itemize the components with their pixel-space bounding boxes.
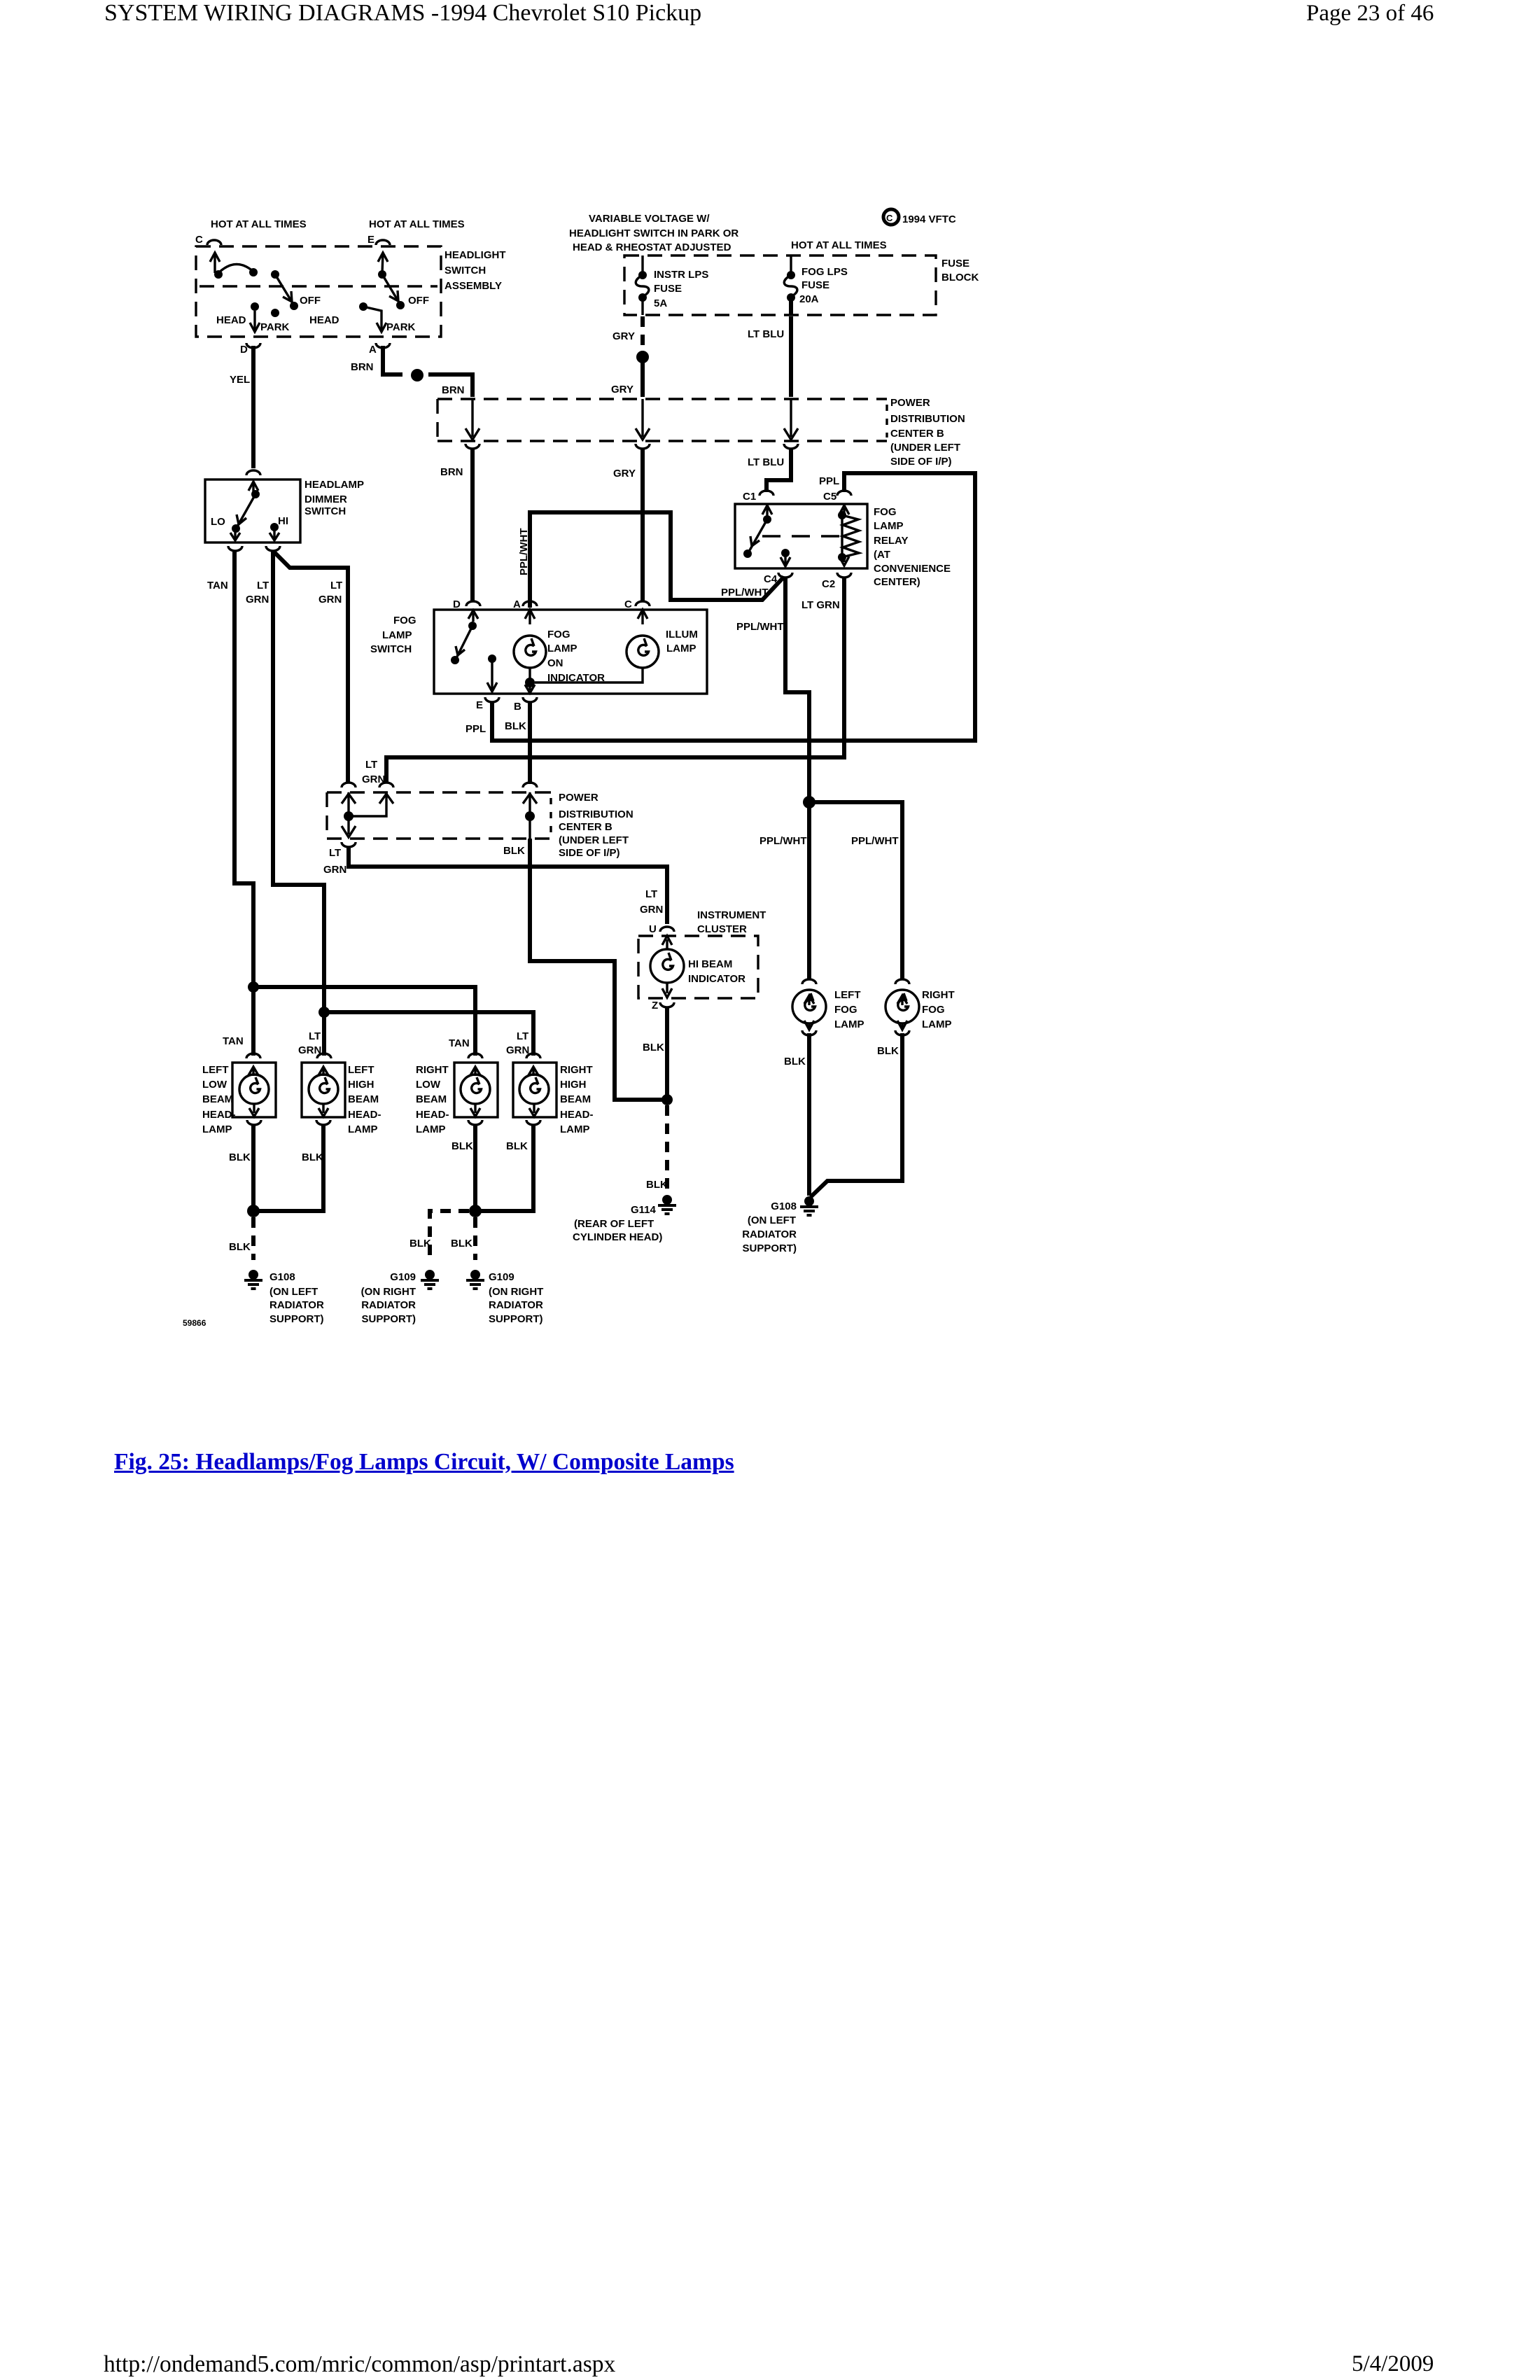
label LT GRN (at U) — [640, 888, 663, 916]
label LT GRN (upper, left) — [246, 580, 269, 605]
svg-text:PPL/WHT: PPL/WHT — [851, 835, 899, 847]
svg-text:LT: LT — [517, 1030, 528, 1042]
label G109 (ON RIGHT RADIATOR SUPPORT) right — [489, 1271, 543, 1325]
connector above left low beam headlamp — [246, 1053, 260, 1058]
svg-text:CYLINDER HEAD): CYLINDER HEAD) — [573, 1231, 662, 1243]
svg-text:RADIATOR: RADIATOR — [742, 1228, 797, 1240]
svg-text:BLK: BLK — [229, 1151, 251, 1163]
label FOG LAMP SWITCH — [370, 615, 416, 655]
svg-text:CLUSTER: CLUSTER — [697, 923, 747, 935]
svg-text:BLK: BLK — [784, 1056, 806, 1067]
svg-text:RELAY: RELAY — [874, 535, 908, 547]
relay dashed actuation line — [762, 535, 842, 537]
svg-text:HI: HI — [278, 515, 288, 527]
svg-text:PPL: PPL — [819, 475, 839, 487]
svg-text:HEADLIGHT SWITCH IN PARK OR: HEADLIGHT SWITCH IN PARK OR — [569, 227, 738, 239]
header left — [104, 0, 701, 27]
svg-text:DISTRIBUTION: DISTRIBUTION — [559, 808, 633, 820]
dimmer switch internals — [230, 482, 279, 540]
svg-text:C: C — [886, 213, 893, 223]
wire PPL from E to relay C5 (right loop) — [492, 473, 975, 741]
svg-text:BLK: BLK — [229, 1241, 251, 1253]
junction dot PPL/WHT fog lamps — [803, 796, 815, 808]
svg-text:FUSE: FUSE — [941, 258, 969, 269]
connector below distribution center (LT BLU) — [784, 444, 798, 449]
illumination lamp — [535, 610, 659, 682]
wire LT BLU to relay C1 — [766, 448, 791, 492]
svg-text:LAMP: LAMP — [834, 1018, 864, 1030]
label RIGHT FOG LAMP — [922, 989, 955, 1030]
wire BLK left high beam down and over — [253, 1124, 323, 1211]
svg-text:PARK: PARK — [260, 321, 290, 333]
figure caption — [114, 1449, 734, 1476]
connector U — [660, 927, 674, 932]
svg-text:GRY: GRY — [611, 384, 633, 395]
wire PPL/WHT to left fog lamp — [807, 802, 811, 980]
svg-text:BRN: BRN — [351, 361, 374, 373]
svg-text:BLK: BLK — [505, 720, 526, 732]
label HI BEAM INDICATOR — [688, 958, 745, 985]
wire LT GRN from distribution to instrument cluster U — [349, 846, 667, 924]
svg-text:HIGH: HIGH — [560, 1079, 587, 1091]
svg-text:G114: G114 — [631, 1204, 659, 1216]
svg-text:LAMP: LAMP — [666, 643, 696, 654]
svg-text:TAN: TAN — [223, 1035, 244, 1047]
svg-text:GRN: GRN — [318, 594, 342, 605]
wire BLK dashed branch to left G109 — [430, 1211, 469, 1260]
connector C (fog switch) — [636, 601, 650, 606]
svg-text:HEADLIGHT: HEADLIGHT — [444, 249, 506, 261]
wire BLK from distribution down to ground run — [530, 839, 665, 1100]
svg-text:(ON RIGHT: (ON RIGHT — [361, 1286, 416, 1298]
svg-text:C5: C5 — [823, 491, 836, 503]
connector C5 — [837, 491, 851, 496]
svg-text:D: D — [240, 344, 248, 356]
wire LT GRN from dimmer HI down (high beams) — [273, 550, 324, 1056]
header right page number — [1306, 1, 1434, 27]
power distribution center B dashed box (upper) — [437, 399, 887, 441]
label G108 (ON LEFT RADIATOR SUPPORT) — [269, 1271, 324, 1325]
svg-text:CENTER B: CENTER B — [890, 428, 944, 440]
connector below left low beam headlamp — [247, 1120, 261, 1125]
label G109 (ON RIGHT RADIATOR SUPPORT) left — [361, 1271, 416, 1325]
wire GRY through distribution center with arrow — [636, 399, 650, 440]
svg-text:BEAM: BEAM — [348, 1093, 379, 1105]
right fog lamp — [885, 990, 919, 1030]
fog lamp relay box — [735, 504, 867, 568]
svg-text:POWER: POWER — [559, 792, 598, 804]
svg-text:HEAD: HEAD — [309, 314, 339, 326]
svg-text:LAMP: LAMP — [922, 1018, 952, 1030]
right low beam headlamp — [454, 1063, 498, 1117]
headlight switch head section (E) — [359, 253, 405, 332]
svg-text:(ON LEFT: (ON LEFT — [748, 1214, 796, 1226]
connector below right high beam headlamp — [526, 1120, 540, 1125]
svg-text:RIGHT: RIGHT — [416, 1064, 449, 1076]
junction dot LT GRN branch — [318, 1007, 330, 1018]
connector C1 — [759, 491, 773, 496]
wire BLK from fog switch B through distribution center — [528, 701, 532, 784]
fog switch E contact — [487, 654, 497, 692]
wire TAN branch to right low beam — [253, 987, 475, 1056]
wire PPL/WHT from C4 to fog switch A — [530, 512, 784, 608]
svg-text:Z: Z — [652, 1000, 658, 1011]
svg-text:LAMP: LAMP — [416, 1123, 446, 1135]
svg-text:CENTER): CENTER) — [874, 576, 920, 588]
label: VARIABLE VOLTAGE note — [569, 213, 738, 253]
label LEFT FOG LAMP — [834, 989, 864, 1030]
label LEFT HIGH BEAM HEAD-LAMP — [348, 1064, 381, 1135]
svg-text:DISTRIBUTION: DISTRIBUTION — [890, 413, 965, 425]
ground G109 (left) — [421, 1270, 439, 1289]
svg-text:PPL/WHT: PPL/WHT — [759, 835, 807, 847]
wire BLK right fog lamp to G108 — [811, 1033, 902, 1197]
wire LT GRN branch to right high beam — [324, 1012, 533, 1056]
wire BLK dashed to right G109 — [473, 1217, 477, 1260]
svg-text:BLK: BLK — [409, 1238, 431, 1249]
label RIGHT LOW BEAM HEAD-LAMP — [416, 1064, 449, 1135]
connector above right high beam headlamp — [526, 1053, 540, 1058]
wire LT GRN from C2 to distribution center — [386, 577, 844, 783]
label G108 (ON LEFT RADIATOR SUPPORT) fog — [742, 1200, 797, 1254]
copyright 1994 VFTC logo — [883, 209, 956, 225]
svg-text:POWER: POWER — [890, 397, 930, 409]
svg-text:BEAM: BEAM — [416, 1093, 447, 1105]
svg-text:LEFT: LEFT — [202, 1064, 229, 1076]
junction dot BLK ground run — [661, 1094, 673, 1105]
svg-text:HOT AT ALL TIMES: HOT AT ALL TIMES — [211, 218, 307, 230]
svg-text:BRN: BRN — [440, 466, 463, 478]
svg-text:G109: G109 — [489, 1271, 514, 1283]
wire GRY to fog lamp switch C — [640, 448, 645, 601]
svg-text:BEAM: BEAM — [202, 1093, 233, 1105]
svg-text:C1: C1 — [743, 491, 756, 503]
svg-text:PPL/WHT: PPL/WHT — [721, 587, 769, 598]
left low beam headlamp — [232, 1063, 276, 1117]
svg-text:A: A — [369, 344, 377, 356]
label POWER DISTRIBUTION CENTER B (lower) — [559, 792, 633, 859]
wire YEL from D to dimmer switch — [251, 346, 255, 468]
svg-text:RADIATOR: RADIATOR — [489, 1299, 543, 1311]
svg-text:RADIATOR: RADIATOR — [269, 1299, 324, 1311]
svg-text:SIDE OF I/P): SIDE OF I/P) — [559, 847, 620, 859]
svg-text:D: D — [453, 598, 461, 610]
label FOG LPS FUSE 20A — [799, 266, 848, 305]
svg-text:ON: ON — [547, 657, 563, 669]
label POWER DISTRIBUTION CENTER B (upper) — [890, 397, 965, 468]
svg-text:(REAR OF LEFT: (REAR OF LEFT — [574, 1218, 654, 1230]
svg-text:BLK: BLK — [646, 1179, 668, 1191]
svg-text:HEAD-: HEAD- — [560, 1109, 594, 1121]
svg-text:59866: 59866 — [183, 1318, 206, 1328]
svg-text:YEL: YEL — [230, 374, 250, 386]
junction dot right BLK — [469, 1205, 482, 1217]
svg-text:LT BLU: LT BLU — [748, 328, 784, 340]
svg-text:HOT AT ALL TIMES: HOT AT ALL TIMES — [369, 218, 465, 230]
svg-text:FUSE: FUSE — [801, 279, 829, 291]
headlight switch assembly dashed box — [196, 246, 441, 337]
svg-text:HEAD & RHEOSTAT ADJUSTED: HEAD & RHEOSTAT ADJUSTED — [573, 241, 731, 253]
svg-text:FUSE: FUSE — [654, 283, 682, 295]
svg-text:DIMMER: DIMMER — [304, 493, 347, 505]
wire PPL/WHT from C4 down to fog lamps — [785, 577, 809, 800]
svg-text:HIGH: HIGH — [348, 1079, 374, 1091]
svg-text:20A: 20A — [799, 293, 819, 305]
connector below left fog lamp — [802, 1030, 816, 1035]
svg-text:LOW: LOW — [202, 1079, 227, 1091]
svg-text:SUPPORT): SUPPORT) — [269, 1313, 324, 1325]
footer date — [1352, 2351, 1434, 2377]
connector C4 — [778, 573, 792, 577]
connector above distribution center (LT GRN out) — [379, 783, 393, 787]
svg-text:SWITCH: SWITCH — [444, 265, 486, 276]
svg-text:OFF: OFF — [300, 295, 321, 307]
svg-text:GRN: GRN — [323, 864, 346, 876]
wire TAN from dimmer LO down — [234, 550, 253, 1056]
relay coil — [838, 505, 859, 566]
svg-text:(ON LEFT: (ON LEFT — [269, 1286, 318, 1298]
connector below distribution center (GRY) — [636, 444, 650, 449]
svg-text:CONVENIENCE: CONVENIENCE — [874, 563, 951, 575]
svg-text:INSTR LPS: INSTR LPS — [654, 269, 708, 281]
svg-text:BLK: BLK — [451, 1140, 473, 1152]
svg-text:HEAD-: HEAD- — [348, 1109, 381, 1121]
label RIGHT HIGH BEAM HEAD-LAMP — [560, 1064, 594, 1135]
svg-text:HEAD-: HEAD- — [202, 1109, 236, 1121]
connector above right low beam headlamp — [468, 1053, 482, 1058]
svg-text:LAMP: LAMP — [547, 643, 577, 654]
label LT GRN (branch) — [318, 580, 342, 605]
right high beam headlamp — [513, 1063, 556, 1117]
svg-text:FOG: FOG — [393, 615, 416, 626]
svg-text:GRN: GRN — [506, 1044, 529, 1056]
headlight switch park section (C) — [210, 253, 298, 332]
svg-text:TAN: TAN — [207, 580, 228, 591]
svg-text:LAMP: LAMP — [874, 520, 904, 532]
fog lamp switch box — [434, 610, 707, 694]
ground G109 (right) — [466, 1270, 484, 1289]
ground G108 (fog lamps) — [800, 1196, 818, 1215]
connector below distribution center (BRN) — [465, 444, 479, 449]
label LT GRN (left high) — [298, 1030, 321, 1056]
label FOG LAMP RELAY (AT CONVENIENCE CENTER) — [874, 506, 951, 588]
svg-text:RIGHT: RIGHT — [922, 989, 955, 1001]
svg-text:HEADLAMP: HEADLAMP — [304, 479, 364, 491]
svg-text:LAMP: LAMP — [560, 1123, 590, 1135]
fuse block dashed box — [624, 255, 936, 315]
svg-text:BLK: BLK — [877, 1045, 899, 1057]
connector below left high beam headlamp — [316, 1120, 330, 1125]
svg-text:SWITCH: SWITCH — [304, 505, 346, 517]
svg-text:LAMP: LAMP — [382, 629, 412, 641]
svg-text:FOG: FOG — [834, 1004, 857, 1016]
svg-text:PPL/WHT: PPL/WHT — [518, 528, 530, 576]
connector above distribution center (BLK) — [523, 783, 537, 787]
svg-text:LAMP: LAMP — [348, 1123, 378, 1135]
svg-text:C2: C2 — [822, 578, 835, 590]
svg-text:FOG: FOG — [547, 629, 570, 640]
wire LT GRN branch from dimmer HI to distribution center — [274, 552, 348, 783]
wire PPL/WHT to right fog lamp — [809, 802, 902, 980]
label HEADLAMP DIMMER SWITCH — [304, 479, 364, 517]
svg-text:FOG LPS: FOG LPS — [801, 266, 848, 278]
label FUSE BLOCK — [941, 258, 979, 283]
connector E — [376, 240, 390, 245]
svg-text:HEAD-: HEAD- — [416, 1109, 449, 1121]
svg-text:LT: LT — [329, 847, 341, 859]
connector B (fog switch, below) — [523, 697, 537, 702]
svg-text:LT GRN: LT GRN — [801, 599, 840, 611]
junction dot left BLK — [247, 1205, 260, 1217]
svg-text:A: A — [513, 598, 521, 610]
svg-text:ILLUM: ILLUM — [666, 629, 698, 640]
label LEFT LOW BEAM HEAD-LAMP — [202, 1064, 236, 1135]
connector D — [246, 343, 260, 348]
connector below dimmer (HI) — [266, 546, 280, 551]
headlamp dimmer switch box — [205, 479, 300, 542]
connector D (fog switch) — [466, 601, 480, 606]
svg-text:GRN: GRN — [246, 594, 269, 605]
label: HEADLIGHT SWITCH ASSEMBLY — [444, 249, 506, 292]
svg-text:5A: 5A — [654, 297, 667, 309]
svg-text:C: C — [195, 234, 203, 246]
svg-text:ASSEMBLY: ASSEMBLY — [444, 280, 502, 292]
svg-text:G108: G108 — [269, 1271, 295, 1283]
svg-text:BLK: BLK — [506, 1140, 528, 1152]
connector above left fog lamp — [802, 979, 816, 984]
connector above distribution center (LT GRN in) — [342, 783, 356, 787]
svg-text:HEAD: HEAD — [216, 314, 246, 326]
svg-text:PPL/WHT: PPL/WHT — [736, 621, 784, 633]
svg-text:1994 VFTC: 1994 VFTC — [902, 213, 956, 225]
left fog lamp — [792, 990, 826, 1030]
svg-text:INSTRUMENT: INSTRUMENT — [697, 909, 766, 921]
svg-text:GRN: GRN — [640, 904, 663, 916]
label FOG LAMP ON INDICATOR — [547, 629, 605, 684]
ground G114 — [658, 1195, 676, 1214]
connector above right fog lamp — [895, 979, 909, 984]
svg-text:LT: LT — [645, 888, 657, 900]
svg-text:SWITCH: SWITCH — [370, 643, 412, 655]
svg-text:LEFT: LEFT — [834, 989, 861, 1001]
svg-text:RIGHT: RIGHT — [560, 1064, 593, 1076]
connector A — [376, 343, 390, 348]
svg-text:HOT AT ALL TIMES: HOT AT ALL TIMES — [791, 239, 887, 251]
left high beam headlamp — [302, 1063, 345, 1117]
svg-text:RADIATOR: RADIATOR — [361, 1299, 416, 1311]
svg-text:GRN: GRN — [362, 773, 385, 785]
svg-text:OFF: OFF — [408, 295, 429, 307]
svg-text:FOG: FOG — [922, 1004, 945, 1016]
svg-text:BRN: BRN — [442, 384, 465, 396]
label LT GRN (right high) — [506, 1030, 529, 1056]
wire BLK left fog lamp to G108 — [807, 1033, 811, 1196]
wire BLK right low beam down — [473, 1124, 477, 1211]
wire BLK dashed to G108 — [251, 1217, 255, 1260]
wire BRN through distribution center with arrow — [465, 399, 479, 440]
svg-text:(ON RIGHT: (ON RIGHT — [489, 1286, 543, 1298]
svg-text:SUPPORT): SUPPORT) — [361, 1313, 416, 1325]
svg-text:BEAM: BEAM — [560, 1093, 591, 1105]
connector Z — [660, 1002, 674, 1007]
connector below right fog lamp — [895, 1030, 909, 1035]
fog lamp on indicator lamp — [514, 610, 546, 687]
svg-text:PPL: PPL — [465, 723, 486, 735]
svg-text:E: E — [476, 699, 483, 711]
relay C4 contact arrow — [780, 549, 790, 566]
svg-text:SUPPORT): SUPPORT) — [742, 1242, 797, 1254]
relay switch contact — [743, 505, 772, 558]
svg-text:BLK: BLK — [451, 1238, 472, 1249]
label INSTR LPS FUSE 5A — [654, 269, 708, 309]
wire LT BLU from fuse to power distribution center — [789, 316, 793, 397]
hi beam indicator lamp — [650, 936, 684, 997]
svg-text:U: U — [649, 923, 657, 935]
svg-text:BLK: BLK — [503, 845, 525, 857]
svg-text:C: C — [624, 598, 632, 610]
svg-text:G108: G108 — [771, 1200, 797, 1212]
connector above dimmer switch — [246, 470, 260, 475]
instrument cluster dashed box — [638, 936, 758, 998]
svg-text:SIDE OF I/P): SIDE OF I/P) — [890, 456, 952, 468]
svg-text:LOW: LOW — [416, 1079, 441, 1091]
svg-text:LT: LT — [257, 580, 269, 591]
connector C2 — [837, 573, 851, 577]
svg-text:PARK: PARK — [386, 321, 416, 333]
svg-text:BLK: BLK — [643, 1042, 664, 1053]
svg-text:SUPPORT): SUPPORT) — [489, 1313, 543, 1325]
footer url — [104, 2351, 615, 2378]
svg-text:CENTER B: CENTER B — [559, 821, 612, 833]
svg-text:LT BLU: LT BLU — [748, 456, 784, 468]
svg-text:LAMP: LAMP — [202, 1123, 232, 1135]
fuse FOG LPS 20A — [784, 255, 797, 315]
svg-text:INDICATOR: INDICATOR — [688, 973, 745, 985]
junction dot TAN branch — [248, 981, 259, 993]
label ILLUM LAMP — [666, 629, 698, 654]
power distribution center B dashed box (lower) — [327, 792, 551, 839]
svg-text:LO: LO — [211, 516, 225, 528]
connector below distribution center (LT GRN) — [342, 842, 356, 847]
svg-text:GRY: GRY — [612, 330, 635, 342]
svg-text:BLK: BLK — [302, 1151, 323, 1163]
wire BLK left low beam down — [251, 1124, 255, 1211]
svg-text:B: B — [514, 701, 521, 713]
svg-text:LEFT: LEFT — [348, 1064, 374, 1076]
svg-text:FOG: FOG — [874, 506, 897, 518]
label (REAR OF LEFT CYLINDER HEAD) — [573, 1218, 662, 1243]
svg-text:BLOCK: BLOCK — [941, 272, 979, 283]
fog switch B output arrow — [525, 685, 535, 693]
svg-text:LT: LT — [309, 1030, 321, 1042]
svg-text:LT: LT — [365, 759, 377, 771]
BLK through distribution center — [523, 792, 537, 839]
wire LT BLU through distribution center with arrow — [784, 399, 798, 440]
label INSTRUMENT CLUSTER — [697, 909, 766, 935]
distribution center internal LT GRN node — [342, 792, 393, 837]
svg-text:GRY: GRY — [613, 468, 636, 479]
fog lamp switch lever — [451, 610, 478, 664]
svg-text:(UNDER LEFT: (UNDER LEFT — [890, 442, 960, 454]
wire BLK dashed to G114 — [665, 1105, 669, 1191]
wire BLK from Z to ground junction — [665, 1007, 669, 1098]
connector below right low beam headlamp — [468, 1120, 482, 1125]
label LT GRN (at distribution in) — [362, 759, 385, 785]
svg-text:TAN: TAN — [449, 1037, 470, 1049]
svg-text:(UNDER LEFT: (UNDER LEFT — [559, 834, 629, 846]
svg-text:HI BEAM: HI BEAM — [688, 958, 732, 970]
connector C — [207, 240, 221, 245]
